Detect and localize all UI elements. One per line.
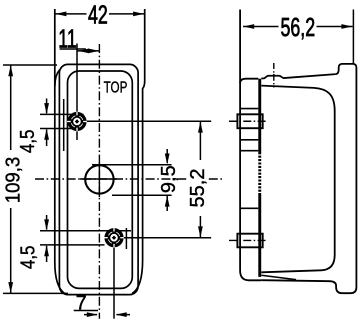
svg-text:55,2: 55,2 (187, 169, 209, 208)
centerlines dash-dot (35, 44, 274, 319)
arrow 55,2 down (198, 226, 203, 237)
solid centerline segments through circle (80, 162, 117, 197)
front view center circle (85, 165, 113, 193)
side view flange crossing rib 4 (240, 207, 258, 209)
dimension 56,2 line (243, 26, 353, 28)
side view bellows hatch ticks (258, 155, 263, 192)
arrow 42 right (133, 12, 144, 17)
extension line through top screw (76, 44, 78, 141)
side view reflector inner outline (261, 86, 334, 273)
side view lens seam wedge line (261, 275, 296, 279)
front view horizontal centerline (35, 178, 224, 180)
side view flange crossing rib 1 (240, 108, 258, 110)
arrow 55,2 up (198, 122, 203, 133)
svg-text:TOP: TOP (104, 79, 128, 96)
side view pip nib (272, 74, 276, 76)
front view left flange line / 42 extension (55, 9, 65, 294)
svg-text:109,3: 109,3 (3, 157, 25, 204)
svg-text:4,5: 4,5 (16, 129, 39, 153)
bottom screw tangent lines for 4,5 (40, 231, 131, 245)
bottom 4,5 arrow shafts (46, 215, 48, 262)
side view lens top surface with pip (261, 74, 336, 78)
extension line 109,3 bottom (3, 292, 68, 294)
arrow 7 right (87, 312, 98, 317)
arrow 109,3 down (8, 282, 13, 293)
side view flange crossing rib 2 (240, 139, 258, 141)
9,5 arrow shafts (166, 149, 168, 211)
top mounting screw grommet (67, 112, 87, 132)
arrow 42 left (55, 12, 66, 17)
dimension 11 leader underline (60, 48, 86, 50)
white gaps behind dimension texts (3, 4, 317, 214)
svg-text:42: 42 (88, 0, 108, 29)
arrow top 4,5 up (44, 129, 49, 140)
front view left flange fillet arc (55, 70, 60, 86)
arrow 11 left (78, 49, 89, 54)
dimension 11 line (78, 50, 100, 52)
side view top bolt centerline (229, 120, 267, 122)
top 4,5 arrow shafts (46, 99, 48, 147)
dimension 7 leader underline (74, 310, 98, 312)
front view inner lens outline (68, 71, 133, 288)
dimension 55,2 line (199, 121, 201, 237)
arrow 9,5 up (165, 196, 170, 207)
arrow 7 left (116, 312, 127, 317)
extension lines for 7 (113, 247, 115, 319)
dimension 109,3 line (10, 65, 12, 293)
svg-text:4,5: 4,5 (16, 245, 39, 269)
top screw tangent lines for 4,5 (40, 114, 84, 128)
svg-text:9,5: 9,5 (158, 165, 180, 193)
9,5 reference lines (92, 165, 172, 196)
side view lens flange thick edge (258, 79, 261, 277)
front view right flange line / 42 extension (132, 9, 145, 293)
dimension 42 line (55, 13, 144, 15)
extension line 109,3 top (3, 64, 57, 66)
bottom mounting screw grommet (104, 228, 124, 248)
svg-text:7: 7 (76, 293, 87, 315)
side view bottom bolt rectangle (237, 234, 262, 248)
side view left flange outline (240, 10, 261, 281)
arrow 11 right (88, 49, 99, 54)
side view lens outer outline (261, 64, 356, 293)
front view top screw slot edge (63, 99, 65, 151)
extension line 56,2 right (352, 10, 354, 65)
front view vertical centerline (98, 44, 100, 319)
arrow 9,5 down (165, 154, 170, 165)
side view pip axis centerline (273, 63, 275, 88)
side view flange top edge (240, 79, 258, 83)
arrow 56,2 right (341, 24, 352, 29)
arrow 109,3 up (8, 65, 13, 76)
arrow bottom 4,5 up (44, 245, 49, 256)
svg-text:11: 11 (58, 24, 76, 53)
front view bottom screw slot edge (125, 228, 127, 249)
side view bottom bolt centerline (229, 239, 267, 241)
dimension 7 arrow shafts (84, 314, 130, 316)
side view flange crossing rib 3 (240, 150, 258, 152)
arrow 56,2 left (243, 24, 254, 29)
arrow top 4,5 down (44, 103, 49, 114)
screw row extension lines to side for 55,2 (86, 121, 211, 237)
arrow bottom 4,5 down (44, 219, 49, 230)
svg-text:56,2: 56,2 (280, 13, 315, 42)
side view top bolt rectangle (237, 114, 262, 128)
front view outer housing outline (59, 64, 138, 294)
